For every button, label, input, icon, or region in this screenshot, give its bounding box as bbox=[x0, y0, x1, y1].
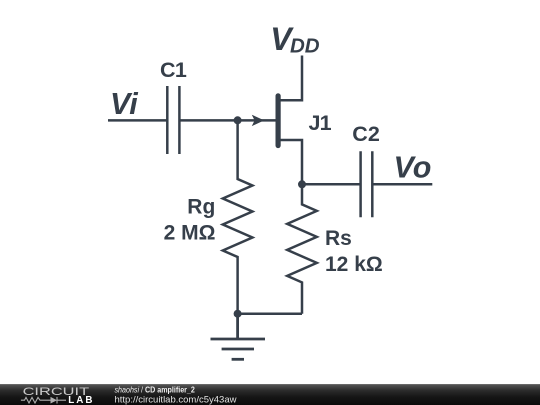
node ground junction bbox=[234, 310, 242, 318]
svg-text:Rg: Rg bbox=[187, 196, 215, 219]
node source junction bbox=[298, 180, 306, 188]
wire C2 to Vo output bbox=[372, 183, 432, 186]
svg-text:C2: C2 bbox=[352, 122, 380, 146]
capacitor C1 bbox=[167, 86, 179, 154]
svg-text:DD: DD bbox=[290, 35, 320, 58]
svg-text:2 MΩ: 2 MΩ bbox=[164, 221, 216, 244]
capacitor C2 bbox=[361, 151, 373, 217]
wire source of J1 bbox=[279, 140, 302, 184]
resistor Rs bbox=[287, 184, 317, 313]
resistor Rg bbox=[223, 120, 253, 313]
label VDD bbox=[270, 21, 320, 58]
svg-text:LAB: LAB bbox=[68, 395, 94, 405]
wire Vi input bbox=[108, 119, 167, 122]
transistor J1 gate arrow bbox=[252, 115, 264, 126]
wire bottom node bbox=[238, 312, 302, 315]
svg-text:shaohsi / CD amplifier_2: shaohsi / CD amplifier_2 bbox=[115, 385, 196, 395]
svg-text:http://circuitlab.com/c5y43aw: http://circuitlab.com/c5y43aw bbox=[115, 394, 237, 405]
wire drain of J1 bbox=[279, 56, 302, 101]
svg-text:12 kΩ: 12 kΩ bbox=[325, 253, 383, 276]
svg-text:Vi: Vi bbox=[110, 87, 138, 121]
svg-text:C1: C1 bbox=[160, 58, 187, 82]
transistor J1 channel bar bbox=[276, 96, 281, 146]
wire gate bbox=[238, 119, 276, 122]
wire source node to C2 bbox=[302, 183, 361, 186]
footer bar bbox=[0, 384, 540, 405]
logo resistor-diode symbol bbox=[21, 397, 66, 404]
svg-text:Vo: Vo bbox=[394, 151, 432, 185]
wire C1 to gate node bbox=[179, 119, 237, 122]
ground bbox=[211, 314, 266, 360]
svg-text:J1: J1 bbox=[309, 111, 332, 135]
node gate junction bbox=[234, 116, 242, 124]
svg-text:Rs: Rs bbox=[325, 227, 352, 250]
